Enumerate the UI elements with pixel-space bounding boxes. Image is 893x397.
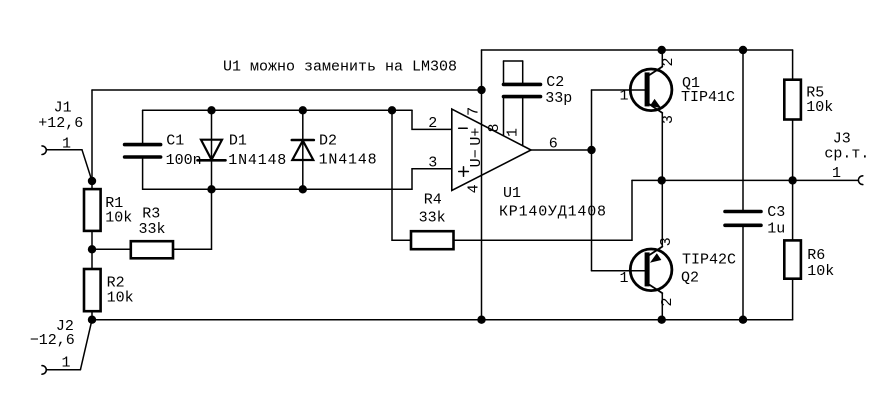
svg-text:10k: 10k [807,263,834,280]
wire base drive vertical [591,90,593,271]
svg-text:U1: U1 [503,185,521,202]
wire J2 diagonal [80,320,92,370]
svg-text:D2: D2 [319,133,337,150]
svg-text:J1: J1 [54,100,72,117]
svg-text:ср.т.: ср.т. [824,146,869,163]
node D2 bottom junction [299,185,307,193]
svg-text:U+: U+ [468,128,485,146]
node Q2 collector junction [658,316,666,324]
node D2 top junction [299,106,307,114]
wire R6 top lead [792,180,794,240]
node divider midpoint [88,245,96,253]
svg-text:1N4148: 1N4148 [319,152,378,169]
svg-text:3: 3 [428,154,437,171]
node D1 top junction [207,106,215,114]
node emitters junction [658,176,666,184]
resistor R5 [784,80,833,120]
node C3 top junction [739,46,747,54]
node Q1 collector junction [658,46,666,54]
svg-text:U1 можно заменить на LM308: U1 можно заменить на LM308 [223,59,457,76]
wire R1-R2 link [91,231,93,269]
node output junction [587,146,595,154]
wire R3 riser to diode rail [211,189,213,249]
svg-text:D1: D1 [229,133,247,150]
capacitor C1 [125,133,202,170]
diode D2 [292,110,378,189]
capacitor C3 [725,50,785,320]
svg-text:U−: U− [468,149,485,167]
resistor R2 [84,269,134,311]
svg-text:Q2: Q2 [681,270,699,287]
wire J1 lead [46,149,82,151]
node R5-R6 output junction [788,176,796,184]
wire R4 left lead [392,239,411,241]
svg-text:10k: 10k [806,99,833,116]
wire top rail [482,49,793,51]
svg-text:10k: 10k [107,290,134,307]
wire feedback riser [631,180,633,240]
node +12.6 junction [88,177,96,185]
op-amp U1 [428,107,607,221]
wire R5 top lead [792,50,794,80]
svg-text:TIP41C: TIP41C [681,89,735,106]
wire R4 right feedback run [454,239,633,241]
connector J3 [824,131,869,185]
wire R3 left lead [92,248,131,250]
svg-text:33k: 33k [419,210,446,227]
svg-text:1: 1 [505,128,522,137]
capacitor C2 [504,61,573,146]
svg-text:1: 1 [62,355,71,372]
svg-text:3: 3 [658,237,675,246]
svg-text:TIP42C: TIP42C [682,252,736,269]
svg-text:100n: 100n [166,152,202,169]
svg-text:1: 1 [832,165,841,182]
svg-text:C1: C1 [166,133,184,150]
wire R4 branch riser [391,110,393,240]
wire clamp box bottom rail [143,188,412,190]
wire output rail [662,179,858,181]
wire +12.6 top horizontal [92,89,482,91]
wire Q1 base lead [592,89,645,91]
wire C1 bottom lead [142,159,144,190]
wire R3 right lead [173,248,212,250]
svg-text:1: 1 [620,270,629,287]
wire R2 bottom lead [91,311,93,320]
svg-text:1u: 1u [767,221,785,238]
wire Q2 base lead [592,270,645,272]
wire J2 lead [46,369,80,371]
svg-text:C3: C3 [767,204,785,221]
node opamp V- junction [477,316,485,324]
wire V+ to top rail [481,50,483,90]
svg-text:33p: 33p [545,90,572,107]
wire opamp power rail pins 7-4 [481,90,483,320]
wire pin3 step [412,169,452,190]
transistor Q1 [620,50,736,180]
resistor R6 [784,240,834,280]
node -12.6 junction [88,316,96,324]
svg-text:+12,6: +12,6 [38,115,83,132]
wire clamp box top rail [143,109,412,111]
wire C1 top lead [142,110,144,143]
svg-text:−12,6: −12,6 [30,332,75,349]
wire bottom rail [92,319,793,321]
svg-text:R3: R3 [142,206,160,223]
connector J1 [38,100,83,155]
resistor R3 [131,206,173,259]
wire R1 top lead [91,181,93,189]
svg-text:2: 2 [660,57,677,66]
svg-text:2: 2 [659,297,676,306]
resistor R4 [411,192,454,250]
svg-text:1: 1 [620,88,629,105]
svg-text:33k: 33k [139,221,166,238]
svg-text:7: 7 [466,107,483,116]
svg-text:C2: C2 [546,74,564,91]
svg-text:R4: R4 [424,192,442,209]
wire J1 diagonal [82,150,92,181]
wire pin2 step [412,110,452,129]
wire R5 bottom lead [792,120,794,181]
wire feedback link to output [632,179,662,181]
wire R6 bottom lead [792,279,794,320]
svg-text:8: 8 [486,123,503,132]
svg-text:4: 4 [466,184,483,193]
diode D1 [198,110,288,189]
wire opamp output [531,149,592,151]
svg-text:R6: R6 [807,247,825,264]
wire +12.6 riser [91,90,93,181]
node R4 branch junction [388,106,396,114]
transistor Q2 [620,180,737,319]
node D1 bottom junction [207,185,215,193]
svg-text:10k: 10k [105,210,132,227]
svg-text:КР140УД1408: КР140УД1408 [499,204,607,221]
connector J2 [30,318,75,374]
node C3 bottom junction [739,316,747,324]
node V+ junction [477,86,485,94]
svg-text:1N4148: 1N4148 [228,152,287,169]
resistor R1 [84,189,132,231]
svg-text:2: 2 [428,115,437,132]
svg-text:3: 3 [660,115,677,124]
